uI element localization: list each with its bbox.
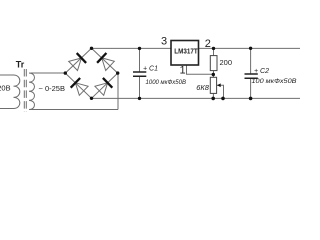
svg-text:2: 2 [205, 38, 211, 50]
resistor R1 200 body [210, 56, 217, 71]
node C1 bottom junction [138, 97, 141, 100]
capacitor C2 plates [245, 74, 258, 78]
wire secondary bottom lead [31, 109, 119, 111]
transformer Tr core [24, 69, 26, 112]
svg-text:6К8: 6К8 [196, 83, 210, 92]
wire primary bottom lead [0, 108, 14, 110]
wire regulator adjust pin 1 [187, 65, 214, 74]
wire top rail regulator output to right edge [199, 47, 301, 49]
node C1 top junction [138, 47, 141, 50]
wire capacitor C1 leads [139, 48, 141, 98]
node regulator output junction [212, 47, 215, 50]
svg-text:200: 200 [220, 58, 233, 67]
svg-text:+ C1: + C1 [143, 66, 158, 73]
diode VD2 top-right [97, 53, 114, 71]
svg-text:Tr: Tr [16, 59, 25, 69]
diode VD3 bottom-left [71, 78, 88, 95]
transformer Tr primary winding [14, 75, 20, 109]
svg-text:3: 3 [161, 36, 167, 48]
node adjust junction [212, 73, 215, 76]
node wiper bottom junction [221, 97, 225, 101]
svg-text:1000 мкФх50В: 1000 мкФх50В [146, 79, 187, 86]
svg-text:LM317T: LM317T [174, 49, 198, 56]
svg-text:1: 1 [180, 65, 186, 77]
transformer Tr secondary winding [29, 73, 34, 110]
node C2 top junction [249, 47, 252, 50]
wire top rail bridge to regulator input [92, 47, 172, 49]
node potentiometer bottom junction [211, 97, 215, 101]
wire capacitor C2 leads [250, 48, 252, 98]
diode VD1 top-left [69, 53, 86, 70]
op-amp U1 LM317T regulator box [171, 41, 199, 66]
node C2 bottom junction [249, 97, 253, 101]
capacitor C1 plates [133, 72, 146, 76]
svg-text:100 мкФх50В: 100 мкФх50В [252, 78, 298, 85]
wire vertical to bridge right node [117, 73, 119, 110]
node right bridge junction [116, 71, 119, 74]
node bottom bridge junction [90, 97, 93, 100]
wire primary top lead [0, 74, 14, 76]
node left bridge junction [64, 71, 67, 74]
wire secondary top lead to bridge left node [31, 72, 66, 74]
svg-text:~220В: ~220В [0, 84, 11, 93]
wire bridge upper-left side [65, 48, 91, 73]
resistor R2 potentiometer 6K8 body [210, 77, 216, 93]
wire bridge lower-left side [65, 73, 91, 98]
wire resistor 200 stubs [213, 48, 215, 74]
wire bottom rail [92, 97, 301, 99]
svg-text:~ 0-25В: ~ 0-25В [39, 84, 65, 93]
wire bridge upper-right side [92, 48, 118, 73]
wire bridge lower-right side [92, 73, 118, 98]
node top bridge junction [90, 47, 93, 50]
svg-text:+ C2: + C2 [254, 68, 269, 75]
diode VD4 bottom-right [95, 78, 112, 95]
wire potentiometer stubs [212, 75, 214, 99]
potentiometer wiper arrow head [217, 83, 221, 87]
wire potentiometer wiper [217, 85, 224, 98]
